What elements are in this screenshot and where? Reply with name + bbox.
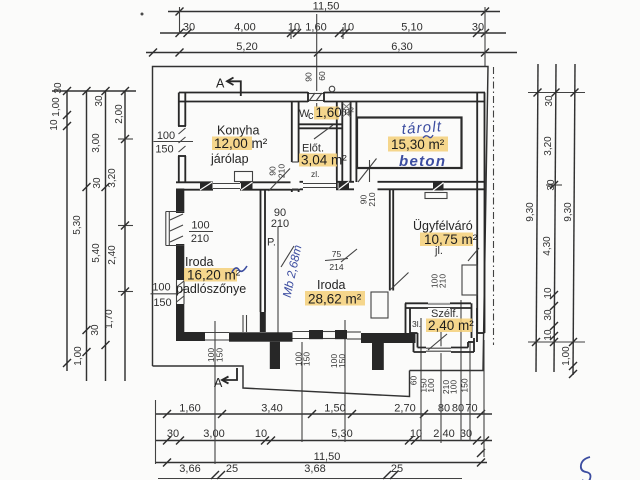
window 2 Iroda1 [176,280,178,304]
konyha sink rect [235,172,253,182]
svg-text:70: 70 [465,403,477,415]
svg-text:12,00 m²: 12,00 m² [214,136,268,151]
svg-text:2,40 m²: 2,40 m² [428,318,474,333]
svg-text:padlószőnye: padlószőnye [176,282,246,296]
svg-text:1,00: 1,00 [51,97,62,117]
dim line 5,20 / 6,30 [146,52,517,54]
svg-text:210: 210 [367,192,377,206]
svg-text:210: 210 [277,164,287,178]
svg-text:10,75 m²: 10,75 m² [424,232,478,247]
door gap ugyfelvaro-szelfogo [428,302,450,309]
left wall lower (Iroda1) dark piers [176,189,184,214]
svg-text:11,50: 11,50 [314,451,341,463]
svg-text:210: 210 [438,274,448,288]
svg-text:100: 100 [426,378,436,392]
svg-text:A: A [214,376,223,390]
taroo [388,137,448,152]
ugyfelvaro east radiator [462,265,477,295]
svg-text:30: 30 [544,95,555,107]
left wall upper (Konyha) [178,93,180,184]
svg-text:3l.: 3l. [412,319,421,329]
svg-text:2,00: 2,00 [114,104,125,124]
dim line 30/4,00/10/1,60/10/5,10/30 [160,32,506,34]
svg-text:1,00: 1,00 [561,346,572,366]
svg-text:zl.: zl. [311,169,320,179]
svg-text:tárolt: tárolt [401,118,443,138]
main south wall of top row y=181.5-189.5 [300,181,355,183]
flue shaft hatch between WC and taroo [342,103,350,117]
flue box ugyfel [433,183,444,191]
svg-text:3,20: 3,20 [543,136,554,156]
flue boxes [200,182,213,190]
WC east wall [336,102,338,191]
svg-text:2,70: 2,70 [394,403,415,415]
tick marks [118,138,133,140]
svg-text:150: 150 [337,354,347,368]
svg-text:1,70: 1,70 [104,309,115,329]
dim line 11,50 [168,11,500,13]
svg-text:75: 75 [332,249,342,259]
vertical extension lines [214,321,216,464]
svg-text:2,40: 2,40 [433,428,454,440]
svg-text:5,10: 5,10 [401,22,422,34]
svg-text:100: 100 [191,220,209,232]
svg-text:100: 100 [157,130,175,142]
row 3 [155,462,487,464]
svg-text:30: 30 [546,179,557,191]
svg-text:9,30: 9,30 [563,202,574,222]
signature S bottom right [581,457,591,480]
svg-text:Ügyfélváró: Ügyfélváró [413,219,473,233]
svg-text:1,60: 1,60 [179,403,200,415]
svg-text:28,62 m²: 28,62 m² [308,292,362,307]
svg-text:150: 150 [155,144,173,156]
ugyfelvaro west wall [389,190,391,291]
svg-text:60: 60 [317,71,327,81]
konyha bottom wall [176,181,300,183]
vertical dim lines [66,91,68,371]
svg-text:210: 210 [191,233,209,245]
door gap konyha-elter [291,162,301,189]
svg-text:6,30: 6,30 [391,41,412,53]
svg-text:m²: m² [341,106,354,118]
svg-text:5,20: 5,20 [236,41,257,53]
svg-text:A: A [216,77,225,91]
konyha door swing [269,169,291,192]
iroda2 SE radiator [371,292,388,318]
row 2 [155,440,492,442]
svg-text:9,30: 9,30 [525,202,536,222]
row 1 [155,413,492,415]
svg-text:10: 10 [543,287,554,299]
svg-text:150: 150 [153,297,171,309]
door gap elter-iroda2 [303,181,336,192]
svg-text:2,40: 2,40 [107,245,118,265]
svg-text:25: 25 [391,463,403,475]
row 4 [158,478,462,480]
iroda1/iroda2 wall [260,190,262,312]
svg-text:4,00: 4,00 [234,22,255,34]
taroo inner rect [357,118,462,169]
door gap konyha-iroda1 [213,181,240,191]
svg-text:25: 25 [226,463,238,475]
bottom porch wall pieces [229,332,293,341]
svg-text:3,68: 3,68 [304,463,325,475]
elter-iroda2 door swing [281,246,294,267]
svg-text:3,00: 3,00 [91,133,102,153]
svg-text:3,40: 3,40 [261,403,282,415]
svg-text:150: 150 [215,348,225,362]
svg-text:100: 100 [449,380,459,394]
svg-text:P.: P. [267,237,276,249]
WC vent window in top wall [308,91,324,103]
svg-text:1,60: 1,60 [305,22,326,34]
svg-text:10: 10 [49,119,60,131]
svg-text:3,20: 3,20 [107,168,118,188]
svg-text:járólap: járólap [210,152,249,166]
svg-text:150: 150 [302,352,312,366]
WC south wall [299,123,343,125]
blue tick over 16,20 [232,266,247,272]
svg-text:10: 10 [543,329,554,341]
blue squiggle under 15,30 [423,135,433,138]
szelfogo walls [405,302,471,304]
svg-text:1,50: 1,50 [324,403,345,415]
taroo door area [358,159,377,183]
dash-dot section line right [493,67,495,345]
svg-text:210: 210 [271,218,289,230]
svg-text:30: 30 [543,309,554,321]
svg-text:jl.: jl. [434,245,443,257]
flue box elter [339,182,350,190]
east wall (right) [476,93,478,334]
eaves boundary [153,67,489,371]
extension lines [179,7,181,34]
top wall (north) double line [179,92,485,94]
svg-text:10: 10 [342,22,354,34]
svg-text:15,30 m²: 15,30 m² [391,137,445,152]
svg-text:80: 80 [452,403,464,415]
svg-text:100: 100 [152,282,170,294]
svg-text:150: 150 [460,378,470,392]
svg-text:5,30: 5,30 [72,215,83,235]
svg-text:11,50: 11,50 [313,1,340,13]
svg-text:30: 30 [90,324,101,336]
svg-text:Iroda: Iroda [317,278,346,292]
svg-text:c: c [308,110,314,122]
konyha window [178,126,187,156]
svg-text:1,60: 1,60 [316,105,342,120]
svg-text:1,00: 1,00 [73,346,84,366]
svg-text:30: 30 [92,177,103,189]
svg-text:30: 30 [53,82,64,94]
svg-text:5,40: 5,40 [91,243,102,263]
svg-text:3,66: 3,66 [179,463,200,475]
bay window Iroda1 [165,212,167,246]
taroo west wall [350,102,352,183]
svg-text:5,30: 5,30 [331,428,352,440]
svg-text:beton: beton [399,153,446,170]
svg-text:90: 90 [304,72,314,82]
thin lines across porch window gaps [205,332,229,334]
top extension line [52,90,136,92]
svg-text:80: 80 [438,403,450,415]
svg-text:3,00: 3,00 [203,428,224,440]
svg-text:10: 10 [255,428,267,440]
svg-text:214: 214 [329,262,343,272]
WC door swing [314,125,333,139]
ugyfelvaro radiator sill [425,193,447,199]
svg-text:4,30: 4,30 [542,236,553,256]
szelfogo door gap [426,346,451,353]
kitchen right wall / WC west [291,102,293,193]
svg-text:30: 30 [94,95,105,107]
svg-text:3,04 m²: 3,04 m² [301,153,347,168]
